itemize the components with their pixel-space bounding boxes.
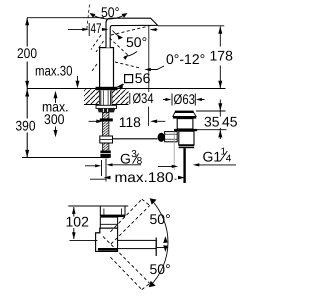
- svg-text:0°-12°: 0°-12°: [166, 51, 205, 67]
- svg-text:max.180: max.180: [115, 169, 174, 185]
- svg-text:G1: G1: [203, 149, 222, 165]
- svg-text:4: 4: [226, 154, 232, 165]
- svg-text:G: G: [120, 151, 131, 167]
- svg-text:50°: 50°: [150, 211, 171, 227]
- svg-text:56: 56: [135, 70, 151, 86]
- svg-text:178: 178: [210, 48, 234, 64]
- svg-text:390: 390: [16, 117, 36, 133]
- svg-text:max.30: max.30: [35, 63, 73, 79]
- svg-text:Ø63: Ø63: [174, 91, 196, 107]
- svg-text:45: 45: [222, 114, 238, 130]
- svg-text:50°: 50°: [101, 4, 120, 20]
- svg-text:200: 200: [17, 45, 37, 61]
- svg-text:8: 8: [137, 156, 143, 167]
- svg-text:50°: 50°: [126, 34, 147, 50]
- svg-text:50°: 50°: [150, 261, 171, 277]
- svg-text:47: 47: [91, 20, 102, 36]
- svg-text:Ø34: Ø34: [133, 90, 154, 106]
- svg-text:118: 118: [119, 114, 141, 130]
- svg-text:300: 300: [44, 111, 65, 127]
- svg-text:35: 35: [204, 114, 220, 130]
- svg-text:102: 102: [66, 213, 90, 229]
